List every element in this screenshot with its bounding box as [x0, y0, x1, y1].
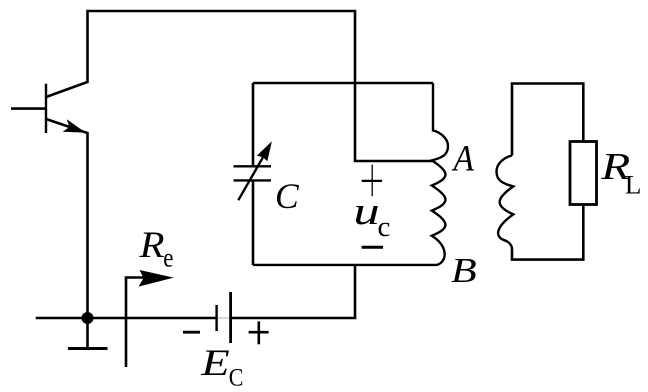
svg-text:C: C [275, 176, 299, 216]
svg-text:L: L [625, 170, 642, 199]
svg-text:c: c [378, 211, 391, 243]
svg-text:u: u [353, 190, 379, 233]
svg-text:R: R [139, 225, 165, 266]
svg-text:e: e [163, 244, 173, 273]
svg-text:C: C [229, 364, 244, 392]
svg-text:A: A [452, 138, 475, 179]
svg-text:B: B [451, 252, 477, 290]
svg-text:E: E [200, 343, 229, 384]
